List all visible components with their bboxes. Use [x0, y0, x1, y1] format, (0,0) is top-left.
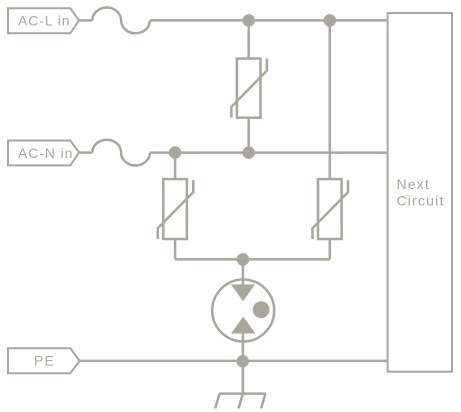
ground tine left	[215, 394, 220, 409]
wire AC-L dot down to MOV3 top (crosses AC-N)	[329, 20, 332, 179]
svg-text:AC-N in: AC-N in	[18, 145, 73, 161]
wire AC-L dot down to MOV1 top	[247, 20, 250, 58]
wire PE dot down to ground	[242, 361, 245, 393]
wire PE line to Next Circuit box	[80, 360, 388, 363]
junction dot AC-L / MOV1	[242, 14, 255, 27]
GDT electrode bottom triangle	[231, 317, 256, 334]
GDT gas-filled dot	[253, 301, 270, 318]
wire AC-L line to Next Circuit box	[150, 19, 388, 22]
wire GDT bottom to PE line	[242, 334, 245, 361]
gas discharge tube GT1 body	[212, 280, 274, 342]
junction dot AC-N / MOV2	[169, 146, 182, 159]
svg-text:AC-L in: AC-L in	[18, 13, 70, 29]
varistor MOV1 strike	[231, 59, 267, 118]
net tag AC-L in	[8, 8, 79, 33]
thermal fuse F2 (AC-N)	[92, 140, 150, 166]
varistor MOV3 (L-PE) body	[318, 179, 342, 239]
svg-text:Next: Next	[397, 176, 431, 192]
GDT electrode top triangle	[231, 284, 255, 301]
ground bar	[219, 392, 266, 395]
svg-text:Circuit: Circuit	[397, 193, 445, 209]
wire MOV1 bottom to AC-N	[247, 118, 250, 153]
ground tine right	[261, 394, 266, 409]
wire AC-N dot down to MOV2 top	[174, 153, 177, 180]
Next Circuit box	[388, 13, 452, 372]
wire common rail	[175, 258, 330, 261]
net tag AC-N in	[8, 141, 79, 166]
ground tine middle	[239, 394, 243, 409]
junction dot rail / GDT	[237, 253, 250, 266]
junction dot AC-N / MOV1	[242, 146, 255, 159]
junction dot PE / GDT / ground	[236, 355, 249, 368]
varistor MOV1 (L-N) body	[237, 59, 261, 118]
wire MOV2 bottom to rail	[174, 239, 177, 259]
net tag PE	[8, 348, 80, 373]
wire MOV3 bottom to rail	[329, 239, 332, 259]
junction dot AC-L / MOV3 column	[324, 14, 337, 27]
varistor MOV3 strike	[313, 180, 349, 239]
wire AC-N line to Next Circuit box	[150, 151, 388, 154]
wire AC-N tag to fuse	[79, 151, 92, 154]
wire rail dot to GDT top	[242, 259, 245, 285]
svg-text:PE: PE	[34, 353, 55, 369]
varistor MOV2 (N-PE) body	[163, 179, 187, 239]
wire AC-L tag to fuse	[79, 19, 92, 22]
thermal fuse F1 (AC-L)	[92, 7, 150, 33]
varistor MOV2 strike	[158, 180, 194, 239]
